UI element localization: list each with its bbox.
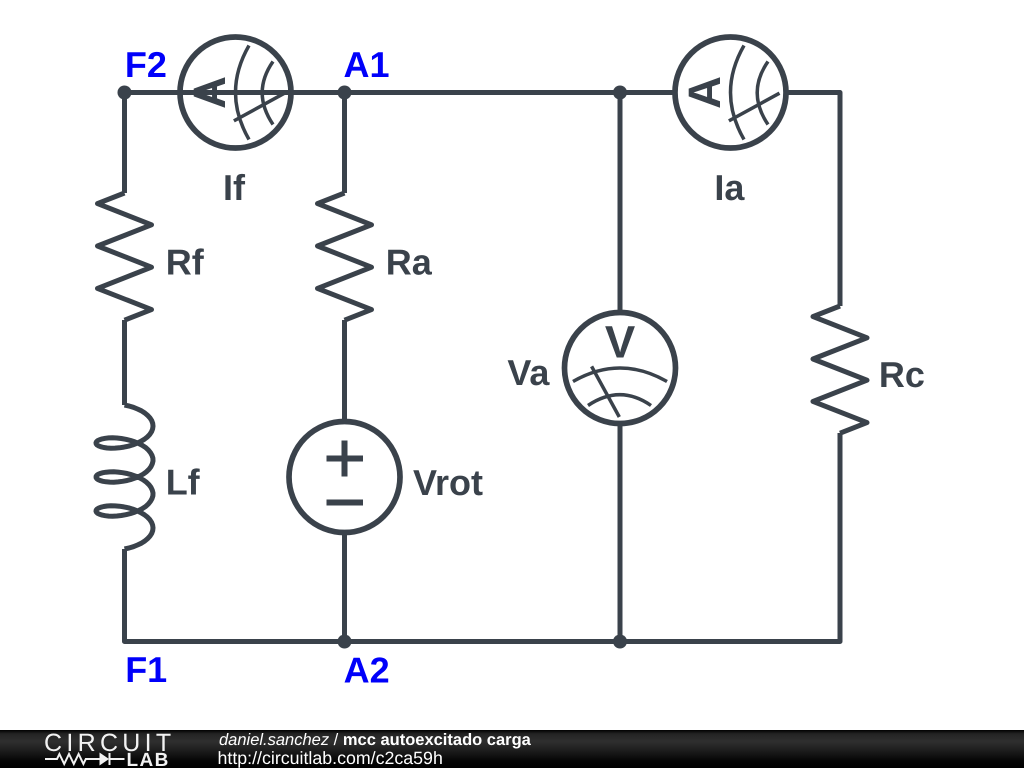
junction bottom voltmeter branch xyxy=(613,635,627,649)
wire Ra to Vrot xyxy=(342,320,347,422)
svg-text:Ia: Ia xyxy=(714,167,745,208)
node F2 xyxy=(118,86,132,100)
svg-text:Rf: Rf xyxy=(166,242,205,283)
svg-text:Vrot: Vrot xyxy=(413,462,483,503)
svg-text:F1: F1 xyxy=(125,649,167,690)
inductor Lf xyxy=(96,405,153,549)
wire top rail F2 to Ia left xyxy=(125,90,676,95)
svg-text:If: If xyxy=(223,167,246,208)
wire voltmeter branch upper xyxy=(618,93,623,314)
resistor Ra xyxy=(318,193,372,320)
svg-text:Va: Va xyxy=(507,352,550,393)
wire Vrot to A2 xyxy=(342,532,347,642)
wire left rail upper xyxy=(122,93,127,194)
resistor Rc xyxy=(813,306,867,433)
resistor Rf xyxy=(98,193,152,320)
junction top voltmeter branch xyxy=(613,86,627,100)
svg-text:A2: A2 xyxy=(344,649,390,690)
svg-text:Lf: Lf xyxy=(166,461,201,502)
logo resistor-diode glyph xyxy=(45,753,125,765)
wire Ia right to top-right corner xyxy=(786,93,840,307)
wire left rail middle xyxy=(122,320,127,405)
svg-text:A1: A1 xyxy=(344,44,390,85)
svg-text:Ra: Ra xyxy=(386,241,433,282)
svg-text:daniel.sanchez / mcc autoexcit: daniel.sanchez / mcc autoexcitado carga xyxy=(219,731,532,749)
ammeter Ia xyxy=(675,37,786,148)
wire branch A1 upper xyxy=(342,93,347,194)
voltage source Vrot xyxy=(289,422,400,533)
svg-text:http://circuitlab.com/c2ca59h: http://circuitlab.com/c2ca59h xyxy=(218,748,443,768)
node A2 xyxy=(338,635,352,649)
ammeter If xyxy=(180,37,291,148)
wire voltmeter branch lower xyxy=(618,423,623,642)
node A1 xyxy=(338,86,352,100)
voltmeter Va xyxy=(565,313,676,424)
svg-text:F2: F2 xyxy=(125,44,167,85)
logo diode triangle xyxy=(100,753,110,766)
svg-text:V: V xyxy=(605,317,636,368)
wire right rail lower, bottom rail, left rail lower corner xyxy=(125,433,841,642)
svg-text:A: A xyxy=(679,76,730,109)
svg-text:LAB: LAB xyxy=(127,750,170,768)
svg-text:Rc: Rc xyxy=(879,354,925,395)
